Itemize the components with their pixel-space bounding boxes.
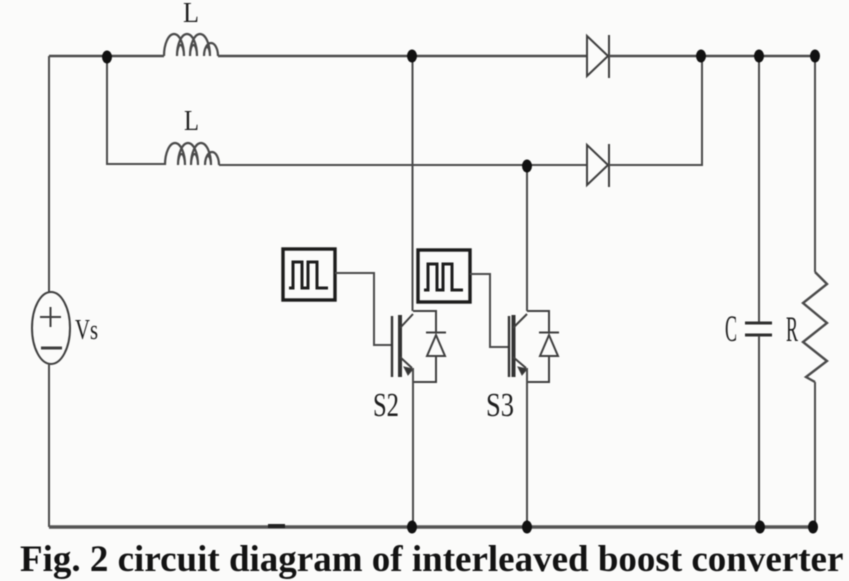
- inductor L2: [165, 143, 219, 165]
- svg-text:R: R: [786, 309, 798, 349]
- wire: branch2 horizontal to diode D2: [219, 164, 587, 166]
- inductor L1: [164, 34, 218, 56]
- wire: S3 emitter to bottom bus: [526, 368, 528, 527]
- node: branch2 joins top bus: [696, 50, 706, 63]
- node: S2 tap on top bus: [407, 50, 417, 63]
- transistor S2 (IGBT): [392, 314, 413, 377]
- pulse generator P1: [283, 249, 335, 300]
- wire: top bus right segment: [609, 55, 815, 58]
- wire: capacitor branch upper: [758, 56, 760, 322]
- wire: bottom bus: [49, 525, 815, 529]
- wire: capacitor branch lower: [758, 336, 760, 527]
- node: resistor bottom: [808, 521, 818, 534]
- svg-text:S3: S3: [486, 387, 514, 424]
- wire: branch2 output up to top bus: [609, 56, 702, 165]
- node A (junction dot top-left): [102, 51, 112, 64]
- caption: figure title: [20, 538, 843, 581]
- node: S3 emitter bottom: [522, 521, 532, 534]
- svg-text:Vs: Vs: [75, 315, 98, 346]
- svg-text:L: L: [183, 0, 199, 29]
- wire: resistor branch lower: [814, 382, 816, 527]
- wire: left rail lower: [48, 364, 50, 527]
- wire: S2 emitter to bottom bus: [412, 368, 414, 527]
- capacitor C: [745, 323, 772, 335]
- voltage source Vs: [32, 292, 70, 364]
- wire: branch2 vertical from node A: [107, 57, 165, 164]
- wire: left rail upper: [48, 56, 50, 292]
- wire: P1 output to S2 gate: [335, 273, 391, 345]
- pulse generator P2: [418, 250, 470, 302]
- transistor S3 (IGBT): [509, 314, 527, 377]
- diode DS2 (anti-parallel with S2): [413, 311, 446, 382]
- diode D1: [587, 35, 609, 78]
- svg-text:L: L: [184, 106, 199, 137]
- wire: P2 output to S3 gate: [470, 274, 508, 347]
- node: S3 tap on branch2: [522, 160, 532, 173]
- node: capacitor bottom: [755, 521, 765, 534]
- diode D2: [587, 144, 609, 187]
- node: S2 emitter bottom: [407, 521, 417, 534]
- node: capacitor top: [754, 50, 764, 63]
- wire: resistor branch upper: [814, 56, 816, 272]
- wire: S3 collector rail from branch2: [526, 166, 528, 311]
- wire: S2 collector rail from top bus: [412, 56, 414, 311]
- node: resistor top: [810, 50, 820, 63]
- wire: top bus middle segment: [218, 55, 587, 58]
- diode DS3 (anti-parallel with S3): [527, 311, 559, 382]
- svg-text:S2: S2: [373, 387, 399, 424]
- wire: top bus left segment: [49, 55, 164, 58]
- resistor R: [803, 272, 827, 382]
- svg-text:C: C: [725, 309, 737, 350]
- node: bottom bus tick: [268, 524, 285, 528]
